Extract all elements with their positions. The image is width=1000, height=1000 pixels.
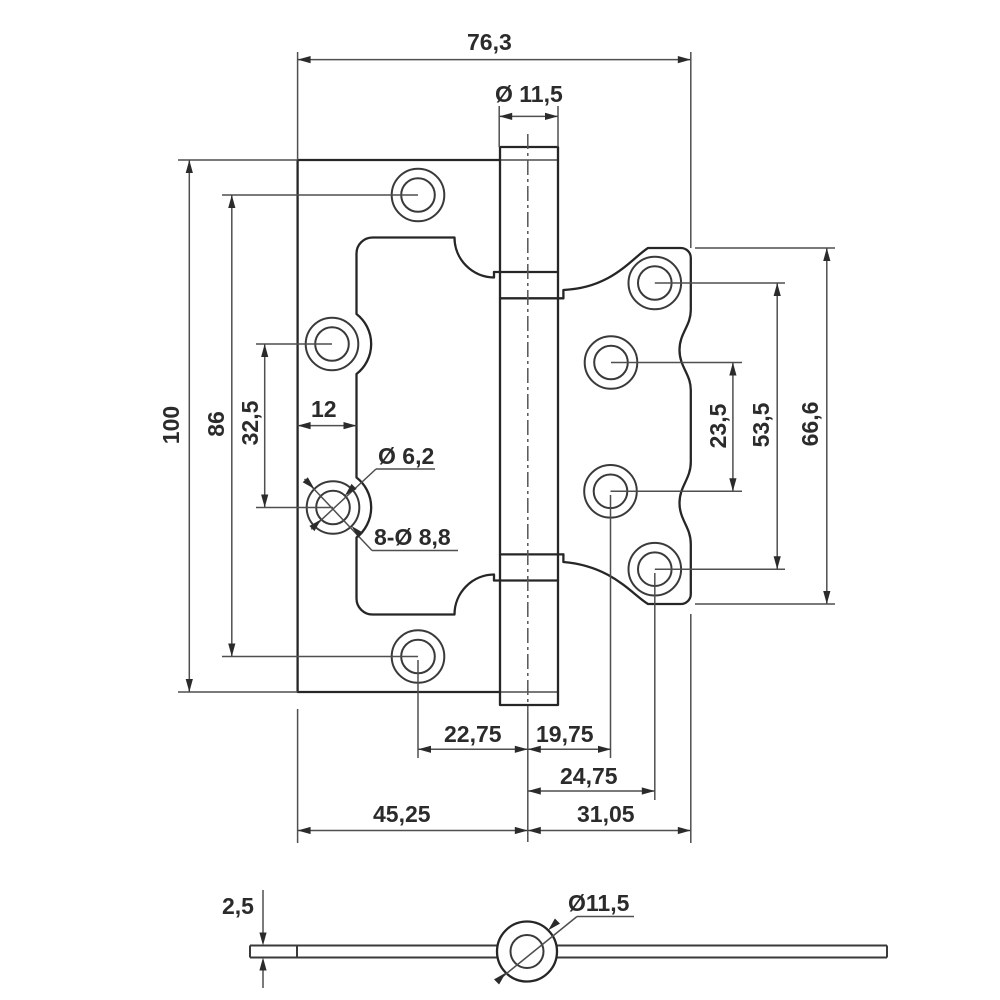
side view left leaf plate bbox=[250, 946, 499, 958]
screw hole L2 (left leaf, upper) bbox=[306, 318, 359, 371]
dimension Ø 11,5 barrel diameter bbox=[495, 81, 563, 147]
svg-text:Ø11,5: Ø11,5 bbox=[568, 890, 630, 916]
dimension 23,5 right middle hole span bbox=[611, 363, 743, 492]
extension line from hole L4 bbox=[417, 660, 419, 758]
screw hole R4 (right leaf, bottom) bbox=[629, 543, 682, 596]
right leaf outline bbox=[563, 248, 690, 604]
screw hole L3 (left leaf, lower (with cross)) bbox=[307, 481, 360, 534]
dimension 31,05 bbox=[528, 801, 691, 834]
dimension 45,25 bbox=[298, 801, 528, 834]
dimension 24,75 bbox=[528, 763, 655, 795]
svg-text:100: 100 bbox=[158, 406, 184, 444]
svg-text:66,6: 66,6 bbox=[797, 402, 823, 447]
extension line right leaf tip bbox=[690, 614, 692, 843]
leader line Ø 6,2 (inner hole diameter) bbox=[309, 469, 435, 531]
svg-text:8-Ø 8,8: 8-Ø 8,8 bbox=[374, 524, 451, 550]
knuckle joint lines bbox=[494, 272, 563, 581]
dimension 76,3 overall width bbox=[298, 29, 691, 248]
label 8-Ø 8,8 bbox=[374, 524, 451, 550]
screw hole R1 (right leaf, top) bbox=[629, 257, 682, 310]
left leaf outline bbox=[298, 160, 558, 692]
svg-text:24,75: 24,75 bbox=[560, 763, 618, 789]
svg-text:2,5: 2,5 bbox=[222, 893, 254, 919]
dimension 100 leaf height bbox=[158, 160, 298, 692]
left leaf inner cutout bbox=[357, 238, 495, 615]
extension line left leaf edge bbox=[297, 709, 299, 843]
screw hole L4 (left leaf, bottom) bbox=[392, 630, 445, 683]
dimension 32,5 middle hole span bbox=[237, 344, 333, 508]
pin centerline bbox=[527, 134, 529, 712]
barrel (pin cylinder) bbox=[500, 147, 558, 705]
svg-text:86: 86 bbox=[203, 411, 229, 437]
svg-text:Ø 11,5: Ø 11,5 bbox=[495, 81, 563, 107]
svg-text:32,5: 32,5 bbox=[237, 400, 263, 445]
svg-text:53,5: 53,5 bbox=[748, 402, 774, 447]
label Ø11,5 side bbox=[568, 890, 630, 916]
screw hole L1 (left leaf, top) bbox=[392, 169, 445, 222]
svg-text:12: 12 bbox=[311, 396, 337, 422]
dimension 12 cutout offset bbox=[298, 396, 357, 429]
extension line from hole R4 bbox=[654, 573, 656, 800]
dimension 19,75 bbox=[528, 721, 611, 753]
leader line 8-Ø 8,8 (outer/countersink diameter, 8 holes) bbox=[303, 477, 458, 550]
side view leaf overlap edge bbox=[296, 946, 298, 958]
side view barrel circle bbox=[497, 922, 557, 982]
svg-text:Ø 6,2: Ø 6,2 bbox=[378, 443, 434, 469]
svg-text:22,75: 22,75 bbox=[444, 721, 502, 747]
svg-text:31,05: 31,05 bbox=[577, 801, 635, 827]
dimension 66,6 right leaf height bbox=[695, 248, 835, 604]
screw hole R2 (right leaf, upper-middle) bbox=[585, 336, 638, 389]
dimension 22,75 bbox=[418, 721, 528, 753]
svg-text:19,75: 19,75 bbox=[536, 721, 594, 747]
extension line from hole R3 bbox=[610, 495, 612, 758]
svg-text:76,3: 76,3 bbox=[467, 29, 512, 55]
leader Ø11,5 side barrel bbox=[494, 917, 634, 985]
svg-text:45,25: 45,25 bbox=[373, 801, 431, 827]
side view right leaf plate bbox=[556, 946, 887, 958]
label Ø 6,2 bbox=[378, 443, 434, 469]
svg-text:23,5: 23,5 bbox=[705, 403, 731, 448]
dimension 2,5 thickness bbox=[222, 890, 267, 988]
dimension 86 hole span bbox=[203, 195, 418, 657]
screw hole R3 (right leaf, lower-middle) bbox=[584, 465, 637, 518]
dimension 53,5 right outer hole span bbox=[655, 283, 785, 569]
extension line pin center bbox=[527, 712, 529, 842]
